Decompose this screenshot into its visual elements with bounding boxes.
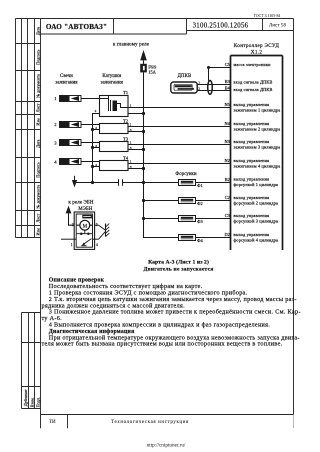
svg-text:М: М xyxy=(83,224,88,229)
МЭБН pin 3 wire xyxy=(95,224,99,226)
МЭБН pin 4 wire xyxy=(93,238,99,240)
svg-text:выход управления: выход управления xyxy=(234,213,270,218)
T4 control wire to N2 xyxy=(128,163,231,165)
label Форсунки xyxy=(175,172,197,177)
svg-text:зажиганием 1 цилиндра: зажиганием 1 цилиндра xyxy=(234,108,281,113)
wire capacitor to bus and injector 1 line B2 xyxy=(123,181,231,184)
svg-text:2: 2 xyxy=(72,223,74,227)
svg-text:Лист 58: Лист 58 xyxy=(269,24,287,29)
injector Ф4 xyxy=(179,235,204,244)
T4 ground stub xyxy=(91,165,100,168)
svg-text:B4: B4 xyxy=(225,85,231,90)
svg-text:N4: N4 xyxy=(225,121,231,126)
МЭБН pin 1 wire xyxy=(61,238,76,240)
svg-text:зажигания: зажигания xyxy=(101,80,124,85)
svg-text:2: 2 xyxy=(54,122,57,127)
svg-text:Лист: Лист xyxy=(36,103,41,112)
ignition coil T1 xyxy=(95,90,132,117)
svg-text:зажигания: зажигания xyxy=(55,80,78,85)
svg-text:зажиганием 4 цилиндра: зажиганием 4 цилиндра xyxy=(234,164,281,169)
svg-text:C2: C2 xyxy=(225,195,230,200)
label Свечи зажигания xyxy=(55,74,78,85)
T1 supply stub xyxy=(128,112,145,115)
svg-text:T3: T3 xyxy=(123,136,129,141)
svg-text:к главному реле: к главному реле xyxy=(113,42,150,47)
spark plug 3 xyxy=(54,140,81,146)
label: к главному реле xyxy=(113,42,150,47)
svg-text:форсункой 3 цилиндра: форсункой 3 цилиндра xyxy=(234,219,279,224)
injector Ф1 xyxy=(179,180,203,189)
svg-text:№ документа: № документа xyxy=(36,74,41,98)
svg-text:4 Выполняется проверка компрес: 4 Выполняется проверка компрессии в цили… xyxy=(49,322,271,329)
svg-text:N3: N3 xyxy=(225,139,230,144)
svg-text:Ф2: Ф2 xyxy=(197,201,203,206)
T3 supply stub xyxy=(128,148,145,151)
T1 control wire to N5 xyxy=(128,107,231,109)
svg-text:Форсунки: Форсунки xyxy=(175,172,197,177)
svg-text:X1.2: X1.2 xyxy=(251,50,263,56)
wires converge to ground xyxy=(99,225,105,239)
label ДПКВ xyxy=(178,74,192,79)
controller box U1 xyxy=(231,43,283,250)
arrow to fuel pump relay xyxy=(66,206,80,226)
svg-text:Дата: Дата xyxy=(36,139,41,147)
ignition coil T4 xyxy=(95,155,132,170)
capacitor C1 xyxy=(119,179,123,186)
svg-text:Подл.: Подл. xyxy=(35,397,40,407)
svg-text:B2: B2 xyxy=(225,177,230,182)
chassis ground symbol xyxy=(106,224,110,237)
T1 ground pin wire xyxy=(93,114,100,183)
svg-text:4: 4 xyxy=(54,160,57,165)
svg-text:выход управления: выход управления xyxy=(234,121,270,126)
ДПКВ pin 2 wire to B4 xyxy=(197,87,231,91)
svg-text:T2: T2 xyxy=(123,118,129,123)
svg-text:Технологическая инструкция: Технологическая инструкция xyxy=(111,420,189,425)
svg-text:Дата: Дата xyxy=(36,27,41,35)
arrow to main relay xyxy=(140,50,147,64)
wire plug4-T4 xyxy=(81,161,100,163)
svg-text:B3: B3 xyxy=(225,79,230,84)
svg-text:Карта А-3 (Лист 1 из 2): Карта А-3 (Лист 1 из 2) xyxy=(148,259,209,266)
controller pin descriptions xyxy=(234,62,281,243)
wire plug1-T1 xyxy=(81,98,100,100)
crankshaft position sensor ДПКВ xyxy=(171,82,197,93)
svg-text:C5: C5 xyxy=(225,62,230,67)
fuel level sender xyxy=(76,230,92,246)
T2 ground stub xyxy=(91,128,100,131)
svg-text:Свечи: Свечи xyxy=(60,74,73,79)
svg-text:форсункой 1 цилиндра: форсункой 1 цилиндра xyxy=(234,182,279,187)
fuel pump motor M xyxy=(76,220,92,230)
+12V bus wire xyxy=(144,72,231,237)
ground line with junction xyxy=(75,181,119,184)
T4 supply stub xyxy=(128,167,145,170)
T3 ground stub xyxy=(91,146,100,149)
svg-text:15А: 15А xyxy=(148,70,156,75)
spark plug 1 xyxy=(54,96,81,102)
svg-text:масса электроники: масса электроники xyxy=(234,62,272,67)
shield screen oval xyxy=(208,81,213,95)
svg-text:Лист: Лист xyxy=(36,214,41,223)
svg-text:вход сигнала ДПКВ: вход сигнала ДПКВ xyxy=(234,87,273,92)
spark plug 4 xyxy=(54,159,81,165)
svg-text:2: 2 xyxy=(95,109,97,113)
ДПКВ pin 1 wire to B3 xyxy=(197,81,231,85)
svg-text:форсункой 2 цилиндра: форсункой 2 цилиндра xyxy=(234,201,279,206)
injector wire Ф2 to C2 xyxy=(142,199,231,202)
svg-text:3: 3 xyxy=(54,141,57,146)
svg-text:Подпись: Подпись xyxy=(36,49,41,64)
svg-text:ГОСТ 3.1105-84: ГОСТ 3.1105-84 xyxy=(254,14,281,18)
ground symbol (engine mass) xyxy=(72,176,77,188)
svg-text:Ф3: Ф3 xyxy=(197,219,203,224)
svg-text:Взам.: Взам. xyxy=(29,397,34,407)
svg-text:ТИ: ТИ xyxy=(49,420,56,425)
svg-text:Ф1: Ф1 xyxy=(197,183,203,188)
svg-text:Двигатель не запускается: Двигатель не запускается xyxy=(144,267,214,273)
svg-text:выход управления: выход управления xyxy=(234,232,270,237)
label к реле ЭБН xyxy=(68,200,93,205)
wire plug2-T2 xyxy=(81,124,100,126)
svg-text:Изм: Изм xyxy=(36,228,41,236)
svg-text:к реле ЭБН: к реле ЭБН xyxy=(68,200,93,205)
svg-text:выход управления: выход управления xyxy=(234,158,270,163)
injector Ф2 xyxy=(179,198,203,207)
T2 control wire to N4 xyxy=(128,126,231,128)
svg-text:МЭБН: МЭБН xyxy=(78,207,92,212)
svg-text:зажиганием 2 цилиндра: зажиганием 2 цилиндра xyxy=(234,127,281,132)
T2 supply stub xyxy=(128,130,145,133)
svg-text:выход управления: выход управления xyxy=(234,102,270,107)
injector wire Ф3 to C3 xyxy=(142,217,231,220)
wire plug3-T3 xyxy=(81,142,100,144)
svg-text:выход управления: выход управления xyxy=(234,177,270,182)
svg-text:Катушки: Катушки xyxy=(102,74,121,79)
svg-text:вход сигнала ДПКВ: вход сигнала ДПКВ xyxy=(234,79,273,84)
svg-text:N2: N2 xyxy=(225,158,230,163)
spark plug 2 xyxy=(54,122,81,128)
svg-text:Подпись: Подпись xyxy=(36,162,41,177)
svg-text:ДПКВ: ДПКВ xyxy=(178,74,192,79)
injector Ф3 xyxy=(179,216,204,225)
svg-text:выход управления: выход управления xyxy=(234,139,270,144)
ignition coil T2 xyxy=(95,118,132,133)
label Катушки зажигания xyxy=(101,74,124,85)
svg-text:Изм: Изм xyxy=(36,118,41,126)
T3 control wire to N3 xyxy=(128,144,231,146)
svg-text:Дубликат: Дубликат xyxy=(23,389,28,406)
svg-text:T1: T1 xyxy=(123,90,129,95)
svg-text:F6/9: F6/9 xyxy=(148,64,156,69)
wire C5 to shield xyxy=(207,66,231,81)
svg-text:форсункой 4 цилиндра: форсункой 4 цилиндра xyxy=(234,238,279,243)
svg-text:№ документа: № документа xyxy=(36,185,41,209)
svg-text:3100.25100.12056: 3100.25100.12056 xyxy=(193,22,249,29)
svg-text:Контроллер ЭСУД: Контроллер ЭСУД xyxy=(234,43,280,49)
svg-text:4: 4 xyxy=(96,243,98,247)
svg-text:T4: T4 xyxy=(123,155,129,160)
ignition coil T3 xyxy=(95,136,132,151)
svg-text:зажиганием 3 цилиндра: зажиганием 3 цилиндра xyxy=(234,145,281,150)
fuel pump module МЭБН box xyxy=(71,207,98,250)
svg-text:Ф4: Ф4 xyxy=(197,238,203,243)
svg-text:D2: D2 xyxy=(225,232,230,237)
svg-text:3 Пониженное давление топлива: 3 Пониженное давление топлива может прив… xyxy=(49,309,301,316)
controller pin labels xyxy=(225,62,231,237)
fuse F6/9 15A xyxy=(140,64,156,75)
svg-text:теля может быть вызвана присут: теля может быть вызвана присутствием вод… xyxy=(42,341,283,348)
svg-text:1: 1 xyxy=(71,243,73,247)
svg-text:1: 1 xyxy=(54,96,57,101)
svg-text:C3: C3 xyxy=(225,213,230,218)
svg-text:ОАО "АВТОВАЗ": ОАО "АВТОВАЗ" xyxy=(46,23,107,31)
svg-text:N5: N5 xyxy=(225,102,230,107)
svg-text:nttp://cniptuner.ru/: nttp://cniptuner.ru/ xyxy=(147,443,186,449)
svg-text:выход управления: выход управления xyxy=(234,195,270,200)
